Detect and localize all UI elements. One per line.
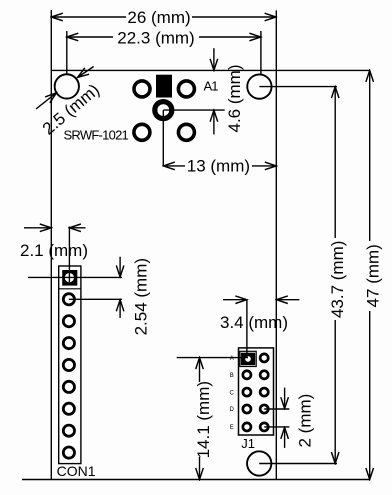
dimension 2.54 mm lower arrow: [119, 300, 121, 318]
dimension 4.6 mm upper arrow: [213, 48, 215, 70]
dimension 4.6 mm leader from center pad: [163, 109, 224, 111]
J1 pad E2: [260, 423, 268, 431]
dimension 13 mm label: [185, 159, 252, 174]
dimension 22.3 mm label: [113, 30, 199, 45]
svg-text:26 (mm): 26 (mm): [127, 8, 190, 27]
dimension 13 mm line: [163, 165, 276, 167]
CON1 pin5: [63, 359, 74, 370]
svg-text:13 (mm): 13 (mm): [187, 157, 250, 176]
dimension 2 mm upper arrow: [284, 388, 286, 409]
J1 pad A2: [260, 354, 268, 362]
J1 pin A1 outline square: [240, 351, 256, 366]
dimension 43.7 mm line: [334, 87, 336, 464]
svg-text:C: C: [229, 390, 234, 396]
dimension 3.4 mm left arrow: [223, 299, 247, 301]
dimension 43.7 mm leader top: [259, 86, 337, 88]
dimension 2 mm leader row D: [264, 408, 289, 410]
mounting hole top-left: [55, 74, 79, 98]
CON1 pin1 leader line: [28, 276, 122, 278]
dimension 4.6 mm lower arrow: [213, 110, 215, 134]
svg-text:SRWF-1021: SRWF-1021: [64, 128, 129, 143]
J1 pad B1: [243, 371, 251, 379]
J1 pad C1: [243, 388, 251, 396]
svg-text:J1: J1: [241, 436, 255, 451]
J1 pad C2: [260, 388, 268, 396]
dimension 22.3 mm line: [67, 36, 261, 38]
dimension 2 mm leader row E: [264, 426, 289, 428]
pad cluster top-left: [134, 81, 150, 97]
CON1 pin2: [63, 294, 74, 305]
svg-text:14.1 (mm): 14.1 (mm): [194, 381, 213, 458]
dimension 13 mm extension line: [162, 110, 164, 166]
CON1 pin9: [63, 447, 74, 458]
mounting hole top-right: [247, 74, 271, 98]
pad cluster bottom-left: [134, 124, 150, 140]
J1 pad E1: [243, 423, 251, 431]
J1 pad D1: [243, 405, 251, 413]
mounting hole bottom-right: [247, 451, 271, 475]
svg-text:B: B: [230, 373, 234, 379]
dimension 2.1 mm left arrow: [24, 227, 51, 229]
dimension 47 mm label: [363, 241, 382, 311]
dimension 14.1 mm leader from J1 pin A1: [177, 357, 248, 359]
antenna pad A1 (black rect): [156, 75, 172, 98]
pad cluster center: [155, 102, 172, 119]
svg-text:D: D: [229, 407, 234, 413]
svg-text:E: E: [230, 425, 234, 431]
dimension 47 mm line: [369, 70, 371, 479]
dimension 3.4 mm extension line: [246, 300, 248, 358]
dimension 22.3 mm extension lines: [67, 31, 261, 74]
connector J1 body: [239, 348, 274, 435]
svg-text:22.3 (mm): 22.3 (mm): [117, 28, 194, 47]
dimension 2.54 mm upper arrow: [119, 257, 121, 277]
J1 pad D2: [260, 405, 268, 413]
svg-text:2.1 (mm): 2.1 (mm): [20, 241, 88, 260]
hole diameter 2.5 mm arrow upper: [78, 67, 94, 78]
J1 pin A1 square pad: [241, 353, 255, 366]
CON1 pin7: [63, 403, 74, 414]
dimension 2.54 mm leader from pin2: [69, 298, 122, 300]
dimension 43.7 mm leader bottom: [259, 463, 337, 465]
dimension 3.4 mm right arrow: [276, 299, 299, 301]
CON1 pin4: [63, 338, 74, 349]
svg-text:3.4 (mm): 3.4 (mm): [220, 313, 288, 332]
dimension 14.1 mm label: [196, 382, 212, 457]
svg-text:A1: A1: [204, 79, 219, 94]
pad cluster top-right: [178, 81, 194, 97]
dimension 14.1 mm line: [199, 358, 201, 480]
svg-text:2 (mm): 2 (mm): [296, 394, 315, 448]
CON1 pin1 box line: [59, 288, 81, 290]
hole diameter 2.5 mm arrow lower: [36, 93, 57, 109]
pad cluster bottom-right: [178, 124, 194, 140]
svg-text:CON1: CON1: [57, 463, 96, 479]
CON1 pin1 square pad: [62, 270, 77, 286]
svg-text:4.6 (mm): 4.6 (mm): [225, 65, 244, 133]
svg-text:43.7 (mm): 43.7 (mm): [328, 241, 347, 318]
dimension 2 mm lower arrow: [284, 427, 286, 448]
svg-text:2.54 (mm): 2.54 (mm): [132, 258, 151, 335]
connector CON1 body: [59, 266, 81, 464]
svg-text:47 (mm): 47 (mm): [363, 244, 382, 307]
dimension 2.1 mm right arrow: [69, 227, 85, 229]
dimension 26 mm label: [126, 10, 192, 25]
CON1 pin8: [63, 425, 74, 436]
CON1 pin6: [63, 381, 74, 392]
dimension 26 mm line: [51, 16, 276, 18]
J1 pad B2: [260, 371, 268, 379]
dimension 2.1 mm extension line: [68, 227, 70, 283]
CON1 pin3: [63, 316, 74, 327]
dimension 43.7 mm label: [328, 238, 347, 320]
